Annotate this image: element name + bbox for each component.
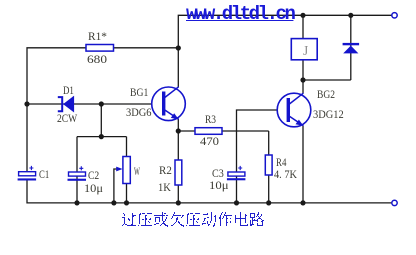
wire flyback diode vertical [350,15,352,80]
label R4 [276,157,286,169]
wire C2/W horizontal bar [77,136,127,138]
value 4.7K [274,169,297,181]
resistor R2 [175,160,182,185]
watermark www.dltdl.cn [186,3,293,25]
junction node ground / C3 [234,200,239,205]
label J [303,43,308,59]
zener diode D1 [58,96,74,112]
junction node C2/W bar [99,134,104,139]
wire left rail lower and ground rail [27,181,392,203]
wire R1 branch from left rail [27,48,178,172]
junction node R1 / BG1 collector [176,45,181,50]
value 3DG6 [126,107,152,119]
junction node BG1 emitter / R3 [176,128,181,133]
wire from node down to C2/W bar [100,104,102,137]
label R2 [159,165,172,177]
capacitor C3 [227,166,246,180]
wire top positive rail [178,15,391,87]
wire C2 vertical [76,137,78,203]
wire BG2 emitter to ground [302,126,304,203]
junction node top rail / flyback diode [348,13,353,18]
value 2CW [57,113,77,125]
flyback diode [343,43,360,54]
junction node ground / R4 [266,200,271,205]
wire top rail to relay J [302,15,304,38]
terminal positive top right [392,13,397,18]
label D1 [63,85,74,97]
junction node ground / wiper [111,200,116,205]
junction node top rail / relay J [300,13,305,18]
label R3 [205,114,216,126]
wire BG2 base and C3 vertical [237,110,278,203]
value 10u C2 [84,183,103,195]
label C2 [88,170,99,182]
junction node left rail / D1 [24,101,29,106]
transistor BG1 [152,87,186,121]
label C3 [212,168,224,180]
relay coil J [291,39,317,60]
value 470 [200,136,219,148]
wire BG1 emitter through R2 to ground [177,119,179,203]
junction node D1 / C2 branch [99,101,104,106]
value 10u C3 [209,180,229,192]
junction node relay / BG2 collector / diode [300,77,305,82]
label BG1 [130,87,148,99]
transistor BG2 [277,93,311,127]
label R1* [88,31,107,43]
wire W wiper drop [114,169,121,203]
wire diode bottom to collector node [303,79,351,81]
junction node ground / R2 [176,200,181,205]
label C1 [39,169,49,181]
value 1K [158,182,171,194]
resistor R3 [195,128,222,135]
wire W vertical [126,137,128,203]
potentiometer W [116,157,130,184]
capacitor C2 [68,166,87,181]
capacitor C1 [18,166,36,181]
label BG2 [317,89,335,101]
wire relay J to BG2 collector [302,60,304,94]
value 3DG12 [313,109,344,121]
junction node ground / BG2 emitter [300,200,305,205]
wire R3 branch [178,130,268,132]
wire R4 vertical [268,131,270,203]
junction node ground / W [124,200,129,205]
resistor R4 [265,155,272,175]
wire D1 branch to BG1 base [27,103,152,105]
resistor R1 [86,45,114,52]
caption over/under-voltage action circuit [122,212,264,227]
junction node ground / C2 [74,200,79,205]
terminal negative bottom right [392,200,397,205]
value 680 [87,54,107,66]
label W [134,166,140,178]
